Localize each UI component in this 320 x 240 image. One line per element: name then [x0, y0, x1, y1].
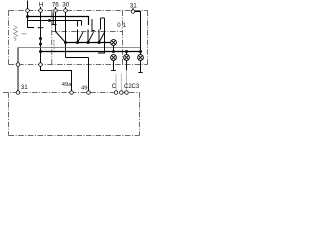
terminal circle C2	[120, 91, 124, 95]
terminal stub T1	[27, 1, 29, 9]
switch lever 1	[78, 32, 84, 42]
node lamp C	[112, 50, 115, 53]
relay box boundary left	[8, 11, 10, 65]
wire x88.5 down to 49	[88, 58, 90, 91]
wire 76 fixed contact	[52, 12, 54, 24]
faint wire to C2	[120, 74, 122, 90]
lamp 2	[111, 55, 117, 61]
resistor zigzag faint	[14, 26, 18, 41]
switch lever 2	[88, 32, 94, 42]
svg-text:49a: 49a	[62, 82, 72, 88]
node H-38	[39, 37, 42, 40]
terminal stub 31 top-right	[132, 8, 134, 10]
faint wire to C	[115, 74, 117, 90]
terminal circle C3	[125, 91, 129, 95]
armature dash	[22, 33, 27, 35]
wire bus y20.5	[28, 20, 82, 22]
switch line y42	[66, 42, 111, 44]
faint link x54	[53, 40, 55, 52]
terminal circle 30	[64, 9, 68, 13]
switch lever 2 contact stub	[87, 30, 89, 43]
tick lamp2	[111, 70, 116, 72]
wire y21 corner down x=81.5	[81, 21, 83, 26]
node lamp4	[139, 50, 142, 53]
wire lamp C to L1	[113, 46, 115, 52]
wire H down	[40, 12, 42, 63]
bus L1 y51.3	[41, 51, 141, 53]
terminal circle relay-bottom 31	[16, 63, 20, 67]
switch box boundary y=31	[52, 31, 123, 33]
switch lever 1 pivot	[76, 41, 79, 44]
contact tick 76	[52, 24, 57, 26]
terminal circle relay-bottom H	[39, 63, 43, 67]
wire lamp 4 down	[140, 61, 142, 73]
svg-text:30: 30	[62, 2, 70, 9]
lower box bottom	[9, 135, 140, 137]
contact tick 27.7	[38, 27, 44, 29]
terminal circle H	[39, 9, 43, 13]
node lamp3	[125, 50, 128, 53]
wire 30 down	[65, 12, 67, 57]
wire lamp4 top	[140, 52, 142, 55]
wire lamp 2 down	[113, 61, 115, 71]
wire T1 down	[28, 12, 35, 27]
switch lever 3	[99, 32, 105, 42]
terminal circle lower 31	[16, 91, 20, 95]
terminal circle 31 top-right	[131, 10, 135, 14]
lower box top y=92	[3, 92, 140, 94]
terminal stub H	[40, 7, 42, 9]
bridge contact right leg down	[98, 18, 105, 53]
mech link gray line y47.5	[18, 47, 141, 49]
node 30-42	[64, 41, 67, 44]
relay box boundary bottom	[9, 64, 148, 66]
contact drop x77.5	[77, 21, 79, 27]
wire relay-bottom H to 49a	[41, 66, 72, 90]
lamp C upper	[111, 40, 117, 46]
terminal circle lower 49	[87, 91, 91, 95]
bridge contact top bar	[101, 17, 105, 19]
wire 76 from circle	[55, 12, 57, 31]
svg-text:76: 76	[52, 2, 60, 9]
svg-text:49: 49	[81, 85, 87, 91]
wire x17 to terminal	[17, 48, 19, 64]
terminal circle C	[114, 91, 118, 95]
switch lever 2 pivot	[87, 41, 90, 44]
lower box left	[8, 93, 10, 136]
wire 31 down to lower box	[17, 66, 19, 90]
tick lamp4	[138, 72, 142, 74]
node T1-16	[26, 15, 29, 18]
svg-text:C: C	[112, 83, 117, 90]
switch box divider x=122	[122, 11, 124, 65]
terminal stub 76	[55, 7, 57, 9]
svg-text:31: 31	[130, 2, 138, 9]
terminal circle T1	[26, 9, 30, 13]
box boundary right x=147	[147, 11, 149, 65]
lamp 3	[124, 55, 130, 61]
node H-51	[39, 50, 42, 53]
node y21	[48, 19, 51, 22]
terminal circle lower 49a	[70, 91, 74, 95]
bridge contact left leg	[100, 18, 102, 30]
lamp 4	[138, 55, 144, 61]
angle contact x92	[92, 19, 95, 31]
lower box right	[139, 93, 141, 136]
node H-44	[39, 43, 42, 46]
relay lever diagonal	[56, 32, 66, 43]
switch lever 3 pivot	[98, 41, 101, 44]
switch lever 1 contact stub	[77, 30, 79, 43]
wire lamp3 top	[126, 52, 128, 55]
svg-text:H: H	[39, 2, 44, 9]
relay box boundary top	[9, 10, 148, 12]
wire 31 to bus	[135, 12, 141, 52]
wire bus y16	[28, 17, 89, 26]
terminal stub 30	[65, 7, 67, 9]
svg-text:31: 31	[21, 84, 29, 91]
faint wire to C3	[126, 71, 128, 90]
wire lamp 3 down	[126, 61, 128, 71]
svg-text:C3: C3	[132, 84, 140, 90]
relay box inner divider x=51	[51, 11, 53, 65]
terminal circle 76	[54, 9, 58, 13]
switch lever 3 contact stub	[98, 30, 100, 43]
bus L2 y57.5	[66, 57, 89, 59]
